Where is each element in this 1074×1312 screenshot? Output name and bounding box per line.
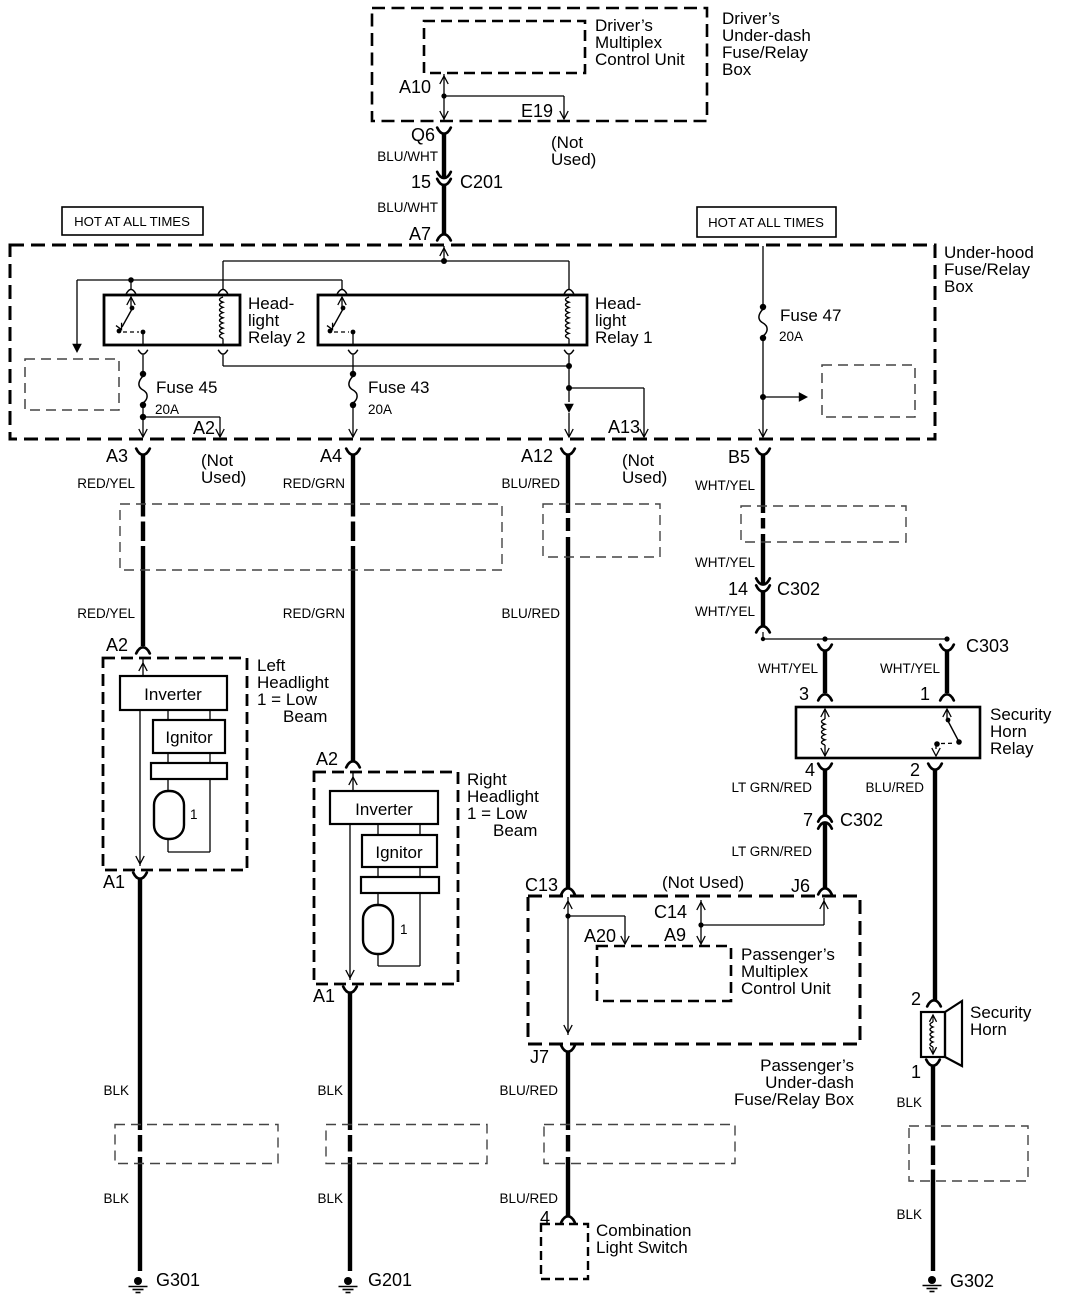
svg-text:RED/GRN: RED/GRN	[283, 476, 345, 491]
label: Left Headlight 1 = Low Beam	[257, 656, 329, 726]
pin A1 fork (right)	[343, 987, 357, 993]
wire label LT GRN/RED (lower)	[731, 844, 812, 859]
wire block to bulb (right)	[377, 893, 379, 905]
label: Passenger's Multiplex Control Unit	[741, 945, 835, 998]
pin B5 terminal fork	[756, 449, 770, 455]
ground G201	[339, 1277, 358, 1293]
wire bulb loop (right)	[378, 893, 420, 966]
node C303 left	[761, 637, 765, 641]
svg-text:Box: Box	[722, 60, 752, 79]
headlight relay 1 box	[318, 295, 587, 345]
svg-text:Horn: Horn	[970, 1020, 1007, 1039]
svg-text:Inverter: Inverter	[355, 800, 413, 819]
wire WHT/YEL to relay pin 3	[823, 651, 827, 693]
wire label BLU/RED (upper)	[501, 476, 560, 491]
svg-text:LT GRN/RED: LT GRN/RED	[731, 780, 812, 795]
wire label BLU/WHT (upper)	[377, 149, 438, 164]
pin J7 fork	[561, 1046, 575, 1052]
terminal block (right)	[361, 877, 439, 893]
wire label BLU/RED (J7 lower)	[499, 1191, 558, 1206]
wire RED/GRN (A4 run)	[351, 455, 355, 761]
svg-text:2: 2	[910, 760, 920, 780]
pass-through connector box (A12)	[543, 504, 660, 557]
relay terminal forks (relay 1 top)	[337, 289, 574, 293]
svg-text:J6: J6	[791, 876, 810, 896]
pin C13 fork	[561, 888, 575, 894]
wire fuse47 to B5 exit	[759, 338, 767, 437]
pin label A1 (right)	[313, 986, 335, 1006]
wire WHT/YEL below C302	[761, 592, 765, 626]
svg-text:Relay 1: Relay 1	[595, 328, 653, 347]
headlight relay 2 box	[104, 295, 240, 345]
relay 1 output forks	[348, 350, 574, 354]
svg-text:BLK: BLK	[896, 1207, 922, 1222]
svg-text:Used): Used)	[201, 468, 246, 487]
wire C303 bus	[763, 638, 947, 640]
svg-text:A4: A4	[320, 446, 342, 466]
relay pin 3 fork	[818, 694, 832, 700]
passenger's under-dash box (dashed)	[528, 896, 860, 1044]
pin J6 fork	[818, 888, 832, 894]
pass-through connector box (horn BLK)	[909, 1126, 1028, 1181]
wire J6 into box	[701, 898, 828, 925]
wire BLK (left headlight ground run)	[138, 879, 142, 1271]
wire label BLU/RED (pin 2)	[865, 780, 924, 795]
svg-text:2: 2	[911, 989, 921, 1009]
svg-text:A2: A2	[316, 749, 338, 769]
wire relay2 to fuse 45	[142, 355, 144, 372]
label: Head- light Relay 2	[248, 294, 306, 347]
passenger's multiplex control unit (dashed box)	[597, 946, 731, 1001]
wire label RED/YEL (upper)	[77, 476, 135, 491]
pin label A2 (not used)	[193, 418, 215, 438]
label Inverter (right)	[355, 800, 413, 819]
svg-text:HOT AT ALL TIMES: HOT AT ALL TIMES	[74, 214, 190, 229]
svg-text:Fuse 43: Fuse 43	[368, 378, 429, 397]
pin 4 fork (combination light switch)	[561, 1216, 575, 1222]
svg-text:Fuse 45: Fuse 45	[156, 378, 217, 397]
hot-at-all-times box (left)	[62, 207, 203, 235]
svg-text:RED/GRN: RED/GRN	[283, 606, 345, 621]
pin label 3	[799, 684, 809, 704]
wire A2 pin to inverter (right)	[349, 773, 357, 791]
wire from A7 into box	[440, 246, 448, 261]
security horn relay coil	[821, 709, 829, 756]
wire label BLK (horn upper)	[896, 1095, 922, 1110]
relay 2 coil	[220, 297, 224, 345]
svg-text:A10: A10	[399, 77, 431, 97]
wire branch to A20	[568, 916, 629, 944]
svg-text:1: 1	[911, 1062, 921, 1082]
terminal block (left)	[151, 763, 227, 779]
fuse 47	[759, 304, 767, 341]
pin label A4	[320, 446, 342, 466]
pin label Q6	[411, 125, 435, 145]
svg-text:1: 1	[920, 684, 930, 704]
wire label RED/GRN (upper)	[283, 476, 345, 491]
svg-text:BLU/RED: BLU/RED	[865, 780, 924, 795]
svg-text:4: 4	[805, 760, 815, 780]
reference box (right, dashed)	[822, 365, 915, 417]
security horn coil	[929, 1015, 936, 1054]
wire inverter to A1 (right)	[346, 824, 354, 980]
wire A2 pin to inverter (left)	[139, 659, 147, 676]
svg-text:1: 1	[400, 922, 408, 937]
left headlight box (dashed)	[103, 658, 247, 870]
svg-text:A1: A1	[313, 986, 335, 1006]
svg-text:Inverter: Inverter	[144, 685, 202, 704]
svg-text:Ignitor: Ignitor	[165, 728, 213, 747]
inverter box (right)	[330, 791, 438, 824]
label 1 (right bulb)	[400, 922, 408, 937]
pin label J6	[791, 876, 810, 896]
svg-text:Fuse/Relay Box: Fuse/Relay Box	[734, 1090, 854, 1109]
wire: relay contact bus	[77, 280, 342, 351]
svg-text:C201: C201	[460, 172, 503, 192]
label G302	[950, 1271, 994, 1291]
fuse 45	[139, 371, 147, 408]
svg-text:(Not Used): (Not Used)	[662, 873, 744, 892]
svg-text:20A: 20A	[779, 329, 803, 344]
svg-text:Box: Box	[944, 277, 974, 296]
fuse 43	[349, 371, 357, 408]
svg-text:20A: 20A	[155, 402, 179, 417]
wire bulb loop (left)	[168, 779, 210, 852]
label C302 (pin 14)	[777, 579, 820, 599]
pin label A13	[608, 417, 640, 437]
label (Not Used) under E19	[551, 133, 596, 169]
wire label RED/GRN (lower)	[283, 606, 345, 621]
svg-text:E19: E19	[521, 101, 553, 121]
label 1 (left bulb)	[190, 807, 198, 822]
node A20 branch	[565, 913, 570, 918]
svg-text:A1: A1	[103, 872, 125, 892]
wire BLK (right headlight ground run)	[348, 993, 352, 1271]
relay 2 output forks	[138, 350, 228, 354]
wire fuse43 to A4 exit	[349, 405, 357, 437]
connector C303 fork (switch side)	[940, 645, 954, 651]
svg-text:G302: G302	[950, 1271, 994, 1291]
wire coil return bus	[223, 355, 569, 366]
connector C302 pin 7	[818, 816, 832, 829]
label Fuse 45	[156, 378, 217, 397]
node A13 branch junction	[566, 385, 572, 391]
wires inverter-ignitor (left)	[168, 710, 210, 720]
wire BLU/RED (A12 run)	[566, 455, 570, 888]
label Fuse 43	[368, 378, 429, 397]
label Ignitor (right)	[375, 843, 423, 862]
wire WHT/YEL to relay pin 1	[945, 651, 949, 693]
wire branch to A13	[569, 388, 648, 437]
relay pin 4 fork	[818, 764, 832, 770]
pin label C13	[525, 875, 558, 895]
pin label A12	[521, 446, 553, 466]
pin label B5	[728, 447, 750, 467]
pin label C14	[654, 902, 687, 922]
label: Security Horn	[970, 1003, 1032, 1039]
wire branch to A2	[143, 417, 224, 437]
svg-text:BLK: BLK	[103, 1191, 129, 1206]
wire label BLK (left lower)	[103, 1191, 129, 1206]
wire BLK (horn ground run)	[931, 1066, 935, 1271]
svg-text:BLK: BLK	[103, 1083, 129, 1098]
pin label A9	[664, 925, 686, 945]
label (Not Used) above C14	[662, 873, 744, 892]
wire label BLU/RED (J7 upper)	[499, 1083, 558, 1098]
arrow into reference box (left)	[72, 344, 82, 353]
svg-text:Relay 2: Relay 2	[248, 328, 306, 347]
wire label BLK (horn lower)	[896, 1207, 922, 1222]
pin label E19	[521, 101, 553, 121]
pin 1 fork (security horn)	[926, 1060, 940, 1066]
security horn body	[921, 1001, 962, 1066]
node on contact bus	[128, 277, 134, 283]
svg-text:BLK: BLK	[317, 1083, 343, 1098]
svg-text:Control Unit: Control Unit	[741, 979, 831, 998]
svg-text:Fuse 47: Fuse 47	[780, 306, 841, 325]
pin A2 fork (right headlight)	[346, 761, 360, 767]
svg-text:Beam: Beam	[493, 821, 537, 840]
pin label 2 (horn)	[911, 989, 921, 1009]
label 20A (fuse 47)	[779, 329, 803, 344]
pass-through connector box (B5)	[741, 506, 906, 542]
svg-text:BLK: BLK	[317, 1191, 343, 1206]
node A10 junction	[441, 93, 446, 98]
svg-text:G301: G301	[156, 1270, 200, 1290]
node J6 branch	[698, 922, 703, 927]
svg-text:BLK: BLK	[896, 1095, 922, 1110]
svg-text:C13: C13	[525, 875, 558, 895]
wire label RED/YEL (lower)	[77, 606, 135, 621]
label: Driver's Under-dash Fuse/Relay Box	[722, 9, 811, 79]
connector C303 fork (coil side)	[818, 645, 832, 651]
direction triangle to A12	[564, 404, 574, 437]
wire label WHT/YEL (pin1)	[880, 661, 940, 676]
svg-text:BLU/RED: BLU/RED	[501, 606, 560, 621]
pass-through connector box (left BLK)	[115, 1125, 278, 1164]
label 20A (fuse 45)	[155, 402, 179, 417]
under-hood fuse/relay box (dashed outline)	[10, 245, 935, 439]
wire block to bulb (left)	[167, 779, 169, 791]
svg-text:14: 14	[728, 579, 748, 599]
arrow into reference box (right)	[763, 392, 808, 402]
svg-text:C14: C14	[654, 902, 687, 922]
svg-text:A20: A20	[584, 926, 616, 946]
pin label A3	[106, 446, 128, 466]
pin label 4	[540, 1208, 550, 1228]
label Inverter (left)	[144, 685, 202, 704]
pin label A2 (right headlight)	[316, 749, 338, 769]
relay 1 switch	[327, 297, 355, 345]
relay terminal forks (relay 2 top)	[126, 289, 228, 293]
svg-text:BLU/RED: BLU/RED	[499, 1083, 558, 1098]
pin label A10	[399, 77, 431, 97]
svg-text:WHT/YEL: WHT/YEL	[695, 604, 755, 619]
wire inverter to A1 (left)	[136, 710, 144, 866]
svg-text:Ignitor: Ignitor	[375, 843, 423, 862]
svg-text:WHT/YEL: WHT/YEL	[695, 478, 755, 493]
pin label A20	[584, 926, 616, 946]
wire label WHT/YEL (middle)	[695, 555, 755, 570]
relay pin 2 fork	[928, 764, 942, 770]
svg-text:15: 15	[411, 172, 431, 192]
wire WHT/YEL (B5 run)	[761, 455, 765, 585]
label 7	[803, 810, 813, 830]
wire BLU/RED (J7 to combination light switch)	[566, 1052, 570, 1216]
pin label 4	[805, 760, 815, 780]
svg-text:WHT/YEL: WHT/YEL	[758, 661, 818, 676]
svg-text:J7: J7	[530, 1047, 549, 1067]
label: Right Headlight 1 = Low Beam	[467, 770, 539, 840]
relay pin 1 fork	[940, 694, 954, 700]
wire label BLK (left upper)	[103, 1083, 129, 1098]
svg-text:RED/YEL: RED/YEL	[77, 606, 135, 621]
wire LT GRN/RED to C302	[823, 770, 827, 815]
wire: coil supply bus	[223, 261, 569, 289]
svg-text:Control Unit: Control Unit	[595, 50, 685, 69]
svg-text:HOT AT ALL TIMES: HOT AT ALL TIMES	[708, 215, 824, 230]
pin Q6 terminal fork	[437, 128, 451, 134]
wire relay1 to fuse 43	[352, 355, 354, 372]
svg-text:A9: A9	[664, 925, 686, 945]
svg-text:Used): Used)	[551, 150, 596, 169]
svg-text:C302: C302	[840, 810, 883, 830]
label (Not Used) under A13	[622, 451, 667, 487]
wires inverter-ignitor (right)	[378, 824, 420, 835]
security horn relay switch	[932, 709, 962, 756]
wire BLU/WHT upper segment	[442, 134, 446, 178]
label 14	[728, 579, 748, 599]
bulb (left headlight)	[154, 791, 184, 839]
pin A12 terminal fork	[561, 449, 575, 455]
ignitor box (right)	[362, 835, 437, 867]
label C201	[460, 172, 503, 192]
security horn relay box	[796, 707, 980, 758]
bulb (right headlight)	[363, 905, 393, 954]
node C303 right	[944, 636, 949, 641]
wire label WHT/YEL (B5 upper)	[695, 478, 755, 493]
label G301	[156, 1270, 200, 1290]
relay 2 switch	[116, 297, 145, 345]
svg-text:Light Switch: Light Switch	[596, 1238, 688, 1257]
wire BLU/RED relay pin2 to horn	[933, 770, 937, 1000]
wire C14/A9 line	[697, 900, 705, 945]
svg-text:Q6: Q6	[411, 125, 435, 145]
svg-text:1: 1	[190, 807, 198, 822]
svg-text:LT GRN/RED: LT GRN/RED	[731, 844, 812, 859]
svg-text:7: 7	[803, 810, 813, 830]
label Ignitor (left)	[165, 728, 213, 747]
svg-text:BLU/RED: BLU/RED	[499, 1191, 558, 1206]
svg-text:WHT/YEL: WHT/YEL	[880, 661, 940, 676]
pin label 1 (horn)	[911, 1062, 921, 1082]
node C303 middle	[822, 636, 827, 641]
wire relay1 outputs to A12	[568, 355, 570, 402]
wire label BLK (mid lower)	[317, 1191, 343, 1206]
svg-text:A12: A12	[521, 446, 553, 466]
reference box (left, dashed)	[25, 359, 119, 410]
wire A10 (inside driver's box)	[440, 74, 448, 121]
ground G301	[129, 1277, 148, 1293]
node fuse47 branch	[760, 394, 766, 400]
wire label WHT/YEL (pin3)	[758, 661, 818, 676]
wire label BLU/WHT (lower)	[377, 200, 438, 215]
wire label BLU/RED (lower)	[501, 606, 560, 621]
svg-text:A13: A13	[608, 417, 640, 437]
driver's multiplex control unit (dashed box)	[424, 21, 585, 73]
svg-text:A7: A7	[409, 224, 431, 244]
combination light switch box (dashed)	[541, 1224, 588, 1279]
svg-text:A3: A3	[106, 446, 128, 466]
pin label A1 (left)	[103, 872, 125, 892]
node A7 junction	[441, 258, 447, 264]
svg-text:C302: C302	[777, 579, 820, 599]
pin label 1	[920, 684, 930, 704]
pin A2 fork (left headlight)	[136, 647, 150, 653]
ground G302	[923, 1276, 942, 1292]
pin A4 terminal fork	[346, 449, 360, 455]
svg-text:WHT/YEL: WHT/YEL	[695, 555, 755, 570]
wire fuse45 to A3 exit	[139, 405, 147, 437]
pin label A2 (left headlight)	[106, 635, 128, 655]
label G201	[368, 1270, 412, 1290]
pass-through connector box (mid BLK)	[326, 1125, 487, 1164]
svg-text:B5: B5	[728, 447, 750, 467]
label: Combination Light Switch	[596, 1221, 691, 1257]
label 20A (fuse 43)	[368, 402, 392, 417]
label Fuse 47	[780, 306, 841, 325]
right headlight box (dashed)	[314, 772, 458, 984]
pin A7 terminal fork	[437, 234, 451, 240]
wire C13 into box	[564, 897, 572, 1035]
label: Passenger's Under-dash Fuse/Relay Box	[734, 1056, 854, 1109]
driver's under-dash fuse/relay box (dashed outline)	[372, 8, 707, 121]
ignitor box (left)	[153, 720, 225, 753]
label: Under-hood Fuse/Relay Box	[944, 243, 1034, 296]
node coil bus junction	[566, 363, 572, 369]
label: Security Horn Relay	[990, 705, 1052, 758]
svg-text:Relay: Relay	[990, 739, 1034, 758]
svg-text:Beam: Beam	[283, 707, 327, 726]
wire from top edge to fuse 47	[762, 246, 764, 305]
wire LT GRN/RED to J6	[823, 823, 827, 889]
wire label WHT/YEL (lower)	[695, 604, 755, 619]
svg-text:BLU/WHT: BLU/WHT	[377, 200, 438, 215]
pin label A7	[409, 224, 431, 244]
svg-text:C303: C303	[966, 636, 1009, 656]
label: Driver's Multiplex Control Unit	[595, 16, 685, 69]
svg-text:BLU/RED: BLU/RED	[501, 476, 560, 491]
wire label LT GRN/RED (upper)	[731, 780, 812, 795]
svg-text:BLU/WHT: BLU/WHT	[377, 149, 438, 164]
svg-text:20A: 20A	[368, 402, 392, 417]
label (Not Used) under A2	[201, 451, 246, 487]
pin label J7	[530, 1047, 549, 1067]
svg-text:A2: A2	[106, 635, 128, 655]
label: Head- light Relay 1	[595, 294, 653, 347]
wires ignitor-block (right)	[378, 867, 420, 877]
svg-text:RED/YEL: RED/YEL	[77, 476, 135, 491]
wire E19 branch	[444, 96, 568, 119]
wire label BLK (mid upper)	[317, 1083, 343, 1098]
pass-through connector box (A3/A4)	[120, 504, 502, 570]
pin A3 terminal fork	[136, 449, 150, 455]
svg-text:G201: G201	[368, 1270, 412, 1290]
pin label 2	[910, 760, 920, 780]
wire BLU/WHT lower segment	[442, 186, 446, 235]
relay 1 coil	[566, 297, 570, 345]
pin A1 fork (left)	[133, 873, 147, 879]
